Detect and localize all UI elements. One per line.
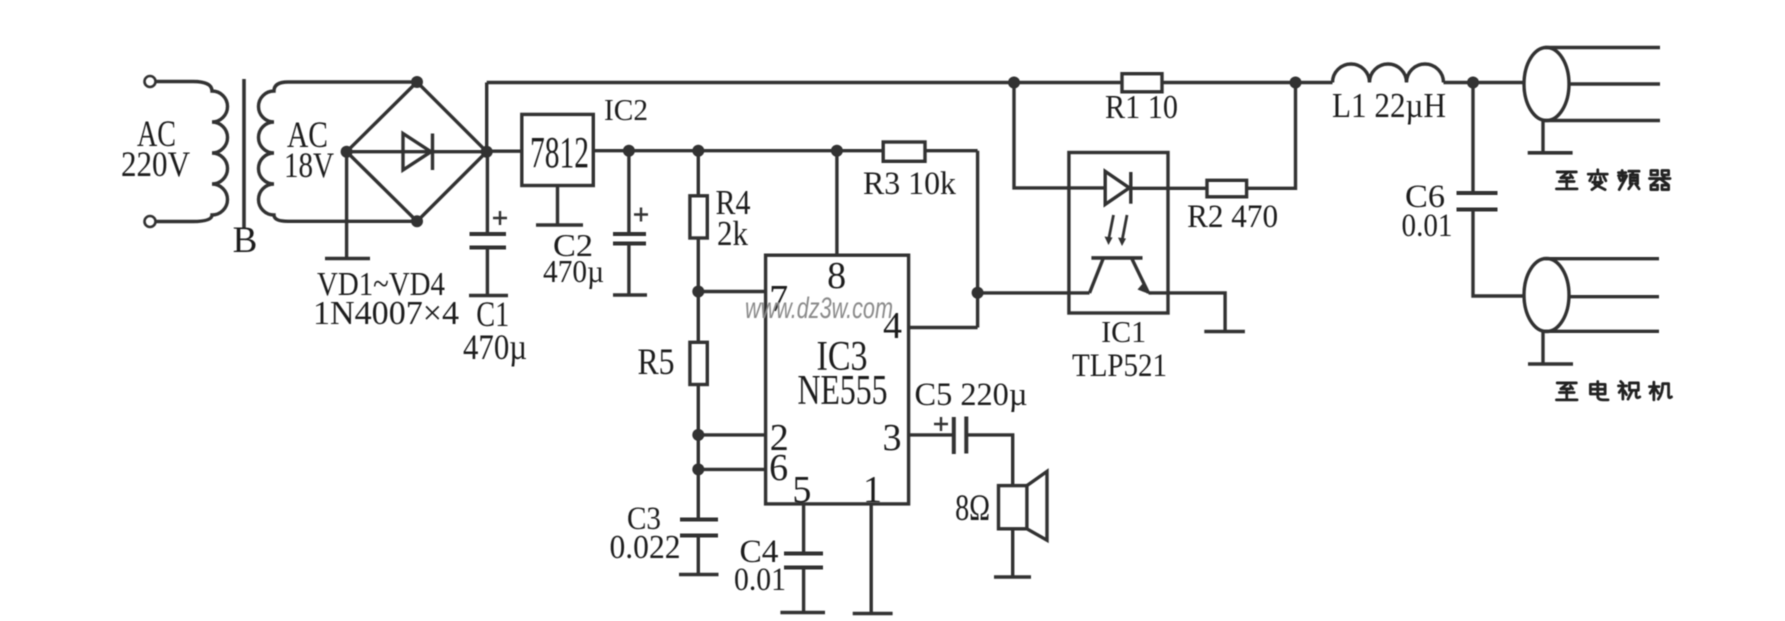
connector to inverter ellipse <box>1524 48 1569 121</box>
svg-text:R2 470: R2 470 <box>1187 199 1278 235</box>
node bridge top <box>411 76 423 88</box>
ground (bridge) <box>325 257 370 261</box>
wire junction to phototransistor <box>978 291 1090 294</box>
capacitor C3 plates <box>680 518 718 522</box>
capacitor C1 polarity plus <box>493 211 507 225</box>
wire IC2 ground stub <box>556 186 559 225</box>
capacitor C2 lead <box>627 151 630 234</box>
IC3 NE555 box <box>766 255 909 504</box>
speaker body <box>999 486 1027 529</box>
svg-text:5: 5 <box>792 469 811 511</box>
svg-text:NE555: NE555 <box>798 368 888 414</box>
bridge rectifier internal wire <box>347 150 487 153</box>
label ji (to TV) char 4 <box>1649 382 1671 400</box>
svg-text:R1 10: R1 10 <box>1105 89 1178 126</box>
node C2 junction <box>623 145 635 157</box>
svg-text:470µ: 470µ <box>463 327 527 367</box>
capacitor C1 lead <box>486 152 489 234</box>
wire LED cathode to R2 <box>1131 187 1207 190</box>
wire pin 3 to C5 <box>909 433 952 436</box>
wire R5 to C3 <box>697 385 700 520</box>
wire R4 upper lead <box>697 151 700 196</box>
ground (C1) <box>469 294 508 298</box>
wire pin 6 <box>698 468 765 471</box>
svg-text:IC2: IC2 <box>604 92 648 127</box>
capacitor C6 plates <box>1457 191 1498 195</box>
svg-text:6: 6 <box>769 447 788 489</box>
wire pin 7 <box>698 290 765 293</box>
node bridge bottom <box>411 215 423 227</box>
resistor R5 <box>690 342 707 384</box>
wire speaker to ground <box>1011 529 1014 577</box>
node R4 top junction <box>692 145 704 157</box>
ground (pin1) <box>853 612 893 616</box>
svg-text:C5 220µ: C5 220µ <box>915 377 1028 413</box>
svg-text:8Ω: 8Ω <box>955 488 990 529</box>
svg-text:B: B <box>233 220 258 261</box>
node bridge left <box>341 146 353 158</box>
label bian (to inverter) char 2 <box>1588 170 1607 190</box>
node R1 left junction <box>1008 77 1020 89</box>
connector to TV ellipse <box>1524 259 1569 332</box>
transformer B primary terminal bottom <box>145 216 156 227</box>
wire bridge to IC2 input <box>487 149 522 152</box>
transformer B core <box>242 79 246 228</box>
wire riser R3 to pin4 <box>976 151 979 328</box>
capacitor C2 plates <box>613 232 646 236</box>
resistor R4 <box>690 196 707 238</box>
svg-text:0.01: 0.01 <box>1402 208 1453 244</box>
wire pin 1 to ground <box>870 504 873 613</box>
node R1 right junction <box>1290 77 1302 89</box>
svg-text:R5: R5 <box>638 342 675 383</box>
resistor R2 <box>1207 180 1247 197</box>
label qi (to inverter) char 4 <box>1649 170 1670 189</box>
phototransistor emitter leg <box>1132 259 1149 293</box>
wire pin 2 <box>698 433 765 436</box>
ground (C2) <box>613 293 647 297</box>
svg-text:18V: 18V <box>284 145 334 185</box>
label shi (to TV) char 3 <box>1618 381 1639 399</box>
capacitor C5 polarity plus <box>934 417 948 431</box>
wire IC2 output rail <box>593 149 883 152</box>
wire top rail left section <box>487 81 1122 84</box>
ground (C3) <box>679 573 719 577</box>
capacitor C2 lower lead <box>627 244 630 295</box>
capacitor C1 plates <box>470 232 507 236</box>
svg-text:L1 22µH: L1 22µH <box>1332 86 1446 125</box>
svg-text:R3 10k: R3 10k <box>863 166 956 202</box>
wire emitter to ground <box>1149 293 1226 331</box>
connector to TV cable lines <box>1545 257 1659 260</box>
resistor R1 <box>1122 74 1162 92</box>
svg-text:www.dz3w.com: www.dz3w.com <box>745 292 893 325</box>
svg-text:TLP521: TLP521 <box>1072 348 1167 384</box>
inductor L1 <box>1333 64 1444 82</box>
wire C6 to TV connector <box>1473 210 1524 296</box>
node L1 right junction <box>1467 77 1479 89</box>
capacitor C2 polarity plus <box>634 208 648 222</box>
svg-text:1: 1 <box>863 469 882 511</box>
phototransistor collector leg <box>1090 259 1104 293</box>
svg-text:0.01: 0.01 <box>734 562 786 598</box>
wire TV connector shield to ground <box>1541 331 1544 363</box>
ground (speaker) <box>994 575 1031 579</box>
label zhi (to TV) char 1 <box>1556 383 1577 400</box>
capacitor C1 lower lead <box>486 248 489 296</box>
svg-text:7812: 7812 <box>530 128 589 177</box>
svg-text:220V: 220V <box>121 144 190 184</box>
node pin8 junction <box>831 145 843 157</box>
wire bridge left node to ground <box>345 152 348 258</box>
transformer B primary terminal top <box>145 76 156 87</box>
wire rail to optocoupler LED <box>1014 83 1105 188</box>
wire pin 4 <box>909 326 978 329</box>
op-amp IC2 7812 box <box>522 114 594 185</box>
node bridge right <box>481 146 493 158</box>
label zhi (to inverter) char 1 <box>1556 172 1577 189</box>
svg-text:0.022: 0.022 <box>610 529 681 566</box>
connector to inverter cable lines <box>1545 46 1660 49</box>
svg-text:3: 3 <box>883 417 902 459</box>
wire R3 to riser <box>925 149 978 152</box>
capacitor C6 upper lead <box>1471 83 1474 194</box>
wire inverter connector shield to ground <box>1541 121 1544 153</box>
capacitor C4 plates <box>784 552 823 556</box>
wire C5 to speaker <box>968 435 1013 486</box>
svg-text:IC1: IC1 <box>1101 314 1146 349</box>
capacitor C4 lower lead <box>802 568 805 613</box>
transformer B secondary winding <box>259 82 418 221</box>
phototransistor emitter arrowhead <box>1138 282 1152 295</box>
ground (TV connector) <box>1528 362 1573 366</box>
wire R4 to R5 <box>697 238 700 342</box>
svg-text:2k: 2k <box>717 214 748 253</box>
resistor R3 <box>883 142 925 161</box>
node optocoupler junction <box>972 287 984 299</box>
wire top rail right section <box>1444 81 1525 84</box>
wire top rail middle section <box>1162 81 1333 84</box>
light arrows of IC1 <box>1105 215 1128 246</box>
svg-text:1N4007×4: 1N4007×4 <box>313 295 459 332</box>
ground (IC2) <box>536 223 583 227</box>
wire riser from bridge right node to top rail <box>485 83 488 152</box>
label pin (to inverter) char 3 <box>1618 170 1639 189</box>
ground (C4) <box>780 611 825 615</box>
svg-text:470µ: 470µ <box>543 253 604 289</box>
ground (inverter connector) <box>1528 151 1573 155</box>
label dian (to TV) char 2 <box>1590 381 1608 399</box>
speaker horn <box>1027 471 1047 540</box>
capacitor C3 lower lead <box>697 536 700 575</box>
ground (IC1 emitter) <box>1204 330 1245 334</box>
node pin6 junction <box>692 463 704 475</box>
wire R2 to rail riser <box>1247 83 1296 189</box>
diode LED of IC1 <box>1105 171 1129 204</box>
bridge rectifier VD1~VD4 diamond <box>347 82 487 221</box>
transformer B primary winding <box>156 82 227 222</box>
phototransistor of IC1 base bar <box>1091 256 1142 260</box>
svg-text:8: 8 <box>827 255 846 297</box>
capacitor C5 plates <box>952 417 956 454</box>
bridge rectifier diode symbol <box>403 134 431 171</box>
opto-isolator IC1 TLP521 box <box>1069 153 1168 314</box>
node pin7 junction <box>692 286 704 298</box>
wire pin 8 <box>835 151 838 256</box>
wire pin 5 to C4 <box>802 504 805 554</box>
node pin2 junction <box>692 429 704 441</box>
